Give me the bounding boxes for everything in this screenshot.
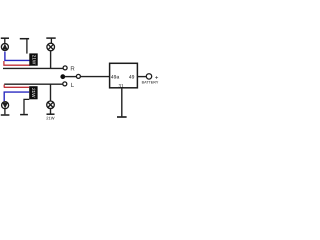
wire R-line (black, to switch terminal R) xyxy=(3,67,63,69)
lamp E1 turn-signal right (circle with X) xyxy=(47,43,55,51)
wire blue (lamp V1 down and right to connector X1) xyxy=(5,52,30,61)
lamp V2 turn-signal indicator left (circle, filled triangle down) xyxy=(2,102,9,109)
connector X1 (black box with white label) xyxy=(29,53,37,65)
svg-text:BATTERY: BATTERY xyxy=(142,81,159,85)
switch wiper (filled dot) xyxy=(60,74,65,79)
ground G3 (above lamp E1) xyxy=(46,38,55,43)
switch centre terminal (open circle) xyxy=(76,74,80,78)
svg-text:21W: 21W xyxy=(46,115,54,120)
wire (centre terminal to flasher 49a) xyxy=(80,76,109,78)
battery terminal (open circle) xyxy=(146,74,151,79)
ground G2 (above connector X1) xyxy=(20,39,29,54)
lamp V1 turn-signal indicator right (circle, filled triangle up) xyxy=(1,44,8,51)
ground G4 xyxy=(20,114,28,116)
lamp E2 turn-signal left (circle with X) xyxy=(47,101,55,109)
svg-text:R: R xyxy=(70,65,75,72)
flasher relay U1 (box) xyxy=(110,63,138,88)
wire red (lower cluster to connector X2) xyxy=(4,86,29,88)
svg-text:21W: 21W xyxy=(31,55,36,65)
wire (flasher 49 to battery terminal) xyxy=(137,76,146,78)
wire red stub (L-line to red wire, lower cluster) xyxy=(3,85,5,88)
svg-text:49: 49 xyxy=(129,74,135,80)
wire (wiper to centre terminal) xyxy=(65,76,77,78)
wire L-line (black, to switch terminal L) xyxy=(4,83,63,85)
svg-text:21W: 21W xyxy=(31,88,36,98)
wire (connector X2 bottom to ground G4) xyxy=(24,99,29,114)
wire red (upper cluster to connector X1) xyxy=(4,62,30,66)
connector X2 (black box with white label) xyxy=(29,86,37,99)
switch terminal L (open circle) xyxy=(63,82,67,86)
ground G1 (above lamp V1) xyxy=(1,38,9,43)
ground G6 (below lamp E2) xyxy=(50,109,52,114)
ground G7 xyxy=(117,116,127,118)
switch terminal R (open circle) xyxy=(63,66,67,70)
ground G5 (below lamp V2) xyxy=(4,109,6,114)
wire blue (connector X2 left and down to lamp V2) xyxy=(4,92,29,101)
wire (lamp E1 down to R-line) xyxy=(50,51,52,69)
wire (L-line down to lamp E2) xyxy=(50,84,52,101)
wire (flasher 31 to ground G7) xyxy=(121,88,123,116)
svg-text:49a: 49a xyxy=(111,74,120,80)
